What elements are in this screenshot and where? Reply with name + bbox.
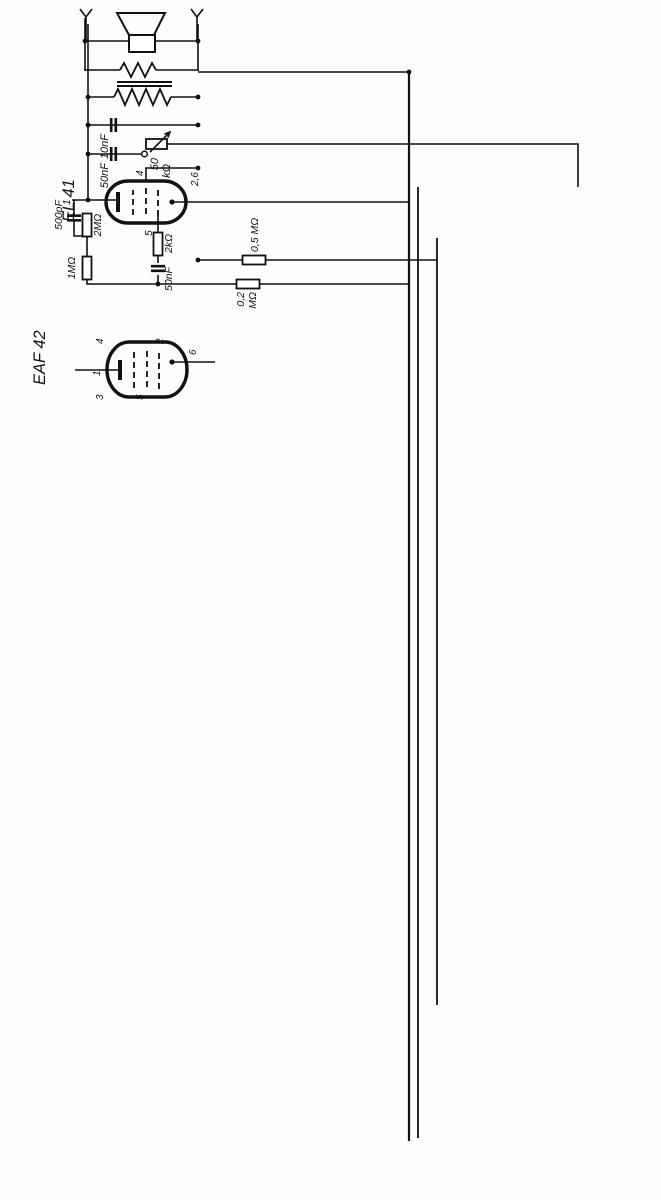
wire 500pF right lead (73, 200, 75, 215)
svg-text:50nF: 50nF (163, 266, 175, 291)
output transformer core (117, 85, 172, 87)
node primary bottom (196, 95, 201, 100)
resistor 2kOhm (154, 233, 163, 256)
wire EAF42-1 anode (172, 361, 215, 363)
EL41 grid dashed 3 (157, 189, 159, 216)
wire EL41 anode lead (172, 201, 409, 203)
node cathode-avc junction (156, 282, 161, 287)
output transformer primary winding (114, 89, 171, 105)
wire primary top lead (88, 96, 114, 98)
node speaker line junction 2 (196, 39, 201, 44)
svg-text:2: 2 (155, 338, 166, 345)
EAF42-1 dashed g2 (133, 352, 135, 388)
node 10nF top (86, 123, 91, 128)
wire 10nF branch (88, 124, 198, 126)
wire EL41 grid lead pin1 (72, 199, 118, 201)
wire secondary top lead (85, 69, 120, 71)
node pin4 line joins (196, 166, 201, 171)
wire bus AVC rail (436, 238, 438, 1005)
wire cathode to cap (157, 256, 159, 263)
svg-text:4: 4 (95, 338, 106, 344)
wire speaker bottom lead (154, 17, 197, 41)
wire right end down to bus (198, 71, 409, 73)
svg-text:0,5 MΩ: 0,5 MΩ (249, 218, 261, 252)
EL41 grid bar (116, 192, 120, 212)
EL41 anode dot (169, 199, 174, 204)
node speaker line junction 1 (83, 39, 88, 44)
EAF42-1 anode dot (169, 359, 174, 364)
wire grid chain (86, 236, 88, 257)
svg-text:1: 1 (92, 370, 103, 376)
EL41 grid2 dashed (132, 190, 134, 215)
svg-text:50nF: 50nF (99, 162, 111, 188)
EAF42-1 dashed g3 (146, 350, 148, 387)
wire secondary bottom lead (156, 69, 198, 71)
wire grid chain to AVC (87, 279, 409, 284)
wire 50nF to ground line (157, 275, 159, 284)
node 0,5M top (196, 258, 201, 263)
wire speaker common line (84, 18, 86, 71)
speaker LS1 (117, 13, 165, 52)
wire speaker line 2 (197, 24, 199, 71)
wire screen feed (198, 259, 437, 261)
speaker terminal top (80, 9, 92, 17)
EAF42-1 grid bar (118, 360, 122, 380)
svg-text:2MΩ: 2MΩ (92, 214, 104, 238)
capacitor 10nF (111, 118, 116, 132)
capacitor 50nF (feedback) (111, 147, 116, 161)
EL41 grid3 dashed (145, 188, 147, 214)
svg-text:MΩ: MΩ (247, 292, 259, 309)
output transformer core 2 (117, 81, 172, 83)
wire EAF42-1 grid lead (75, 369, 120, 371)
resistor 0.2MOhm (237, 280, 260, 289)
potentiometer 50kOhm (146, 139, 167, 149)
tube V4 EL41 envelope (106, 181, 186, 223)
svg-text:kΩ: kΩ (161, 164, 173, 178)
node 10nF bottom (196, 123, 201, 128)
svg-text:EAF 42: EAF 42 (31, 330, 49, 385)
svg-text:0,2: 0,2 (235, 292, 247, 307)
resistor 2MOhm grid (83, 214, 92, 237)
resistor 0.5MOhm (243, 256, 266, 265)
wire EL41 screen pin4 (146, 168, 198, 181)
svg-text:2kΩ: 2kΩ (163, 234, 175, 254)
wire primary bottom lead (171, 96, 198, 98)
wire speaker top lead (86, 17, 129, 41)
wire bus chassis (main horizontal bus) (408, 72, 410, 1141)
switch on potentiometer (142, 151, 148, 157)
svg-text:6: 6 (188, 349, 199, 355)
node bus A right (407, 70, 412, 75)
capacitor 500pF (67, 216, 81, 221)
svg-text:500pF: 500pF (53, 200, 65, 230)
wire bus B+ rail (417, 187, 419, 1138)
output transformer secondary winding (120, 63, 156, 77)
EAF42-1 dashed g4 (158, 351, 160, 389)
wire pot to B+ line (167, 144, 578, 187)
capacitor 50nF cathode (151, 266, 165, 271)
resistor 1MOhm grid (83, 257, 92, 280)
speaker terminal bottom (191, 9, 203, 17)
tube V2 EAF42 envelope (107, 342, 187, 397)
svg-text:5: 5 (135, 394, 146, 400)
node primary top (86, 95, 91, 100)
svg-text:4: 4 (135, 170, 146, 176)
potentiometer 50k arrow (150, 132, 170, 152)
svg-text:10nF: 10nF (99, 133, 111, 159)
svg-text:3: 3 (95, 394, 106, 400)
node 50nF top (86, 152, 91, 157)
svg-text:2,6: 2,6 (190, 172, 201, 187)
svg-text:1MΩ: 1MΩ (66, 257, 78, 280)
wire 50nF branch (88, 153, 141, 155)
wire speaker frame line (87, 24, 89, 200)
node grid line (86, 198, 91, 203)
wire EL41 cathode pin5 (157, 216, 159, 238)
wire 500pF left lead (74, 221, 87, 236)
